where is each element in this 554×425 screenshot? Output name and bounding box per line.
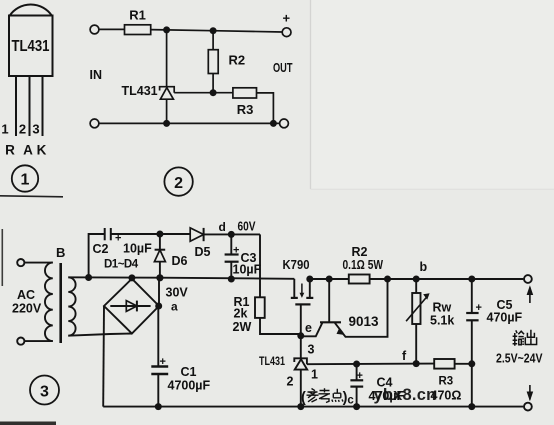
wire secondary top to bridge xyxy=(68,276,160,278)
terminal input bottom xyxy=(90,119,99,128)
wire bridge right corner riser xyxy=(158,278,160,306)
svg-text:Rw: Rw xyxy=(433,301,452,315)
svg-text:+: + xyxy=(160,356,166,368)
capacitor C2 plates xyxy=(104,228,106,240)
junction emitter riser node b xyxy=(384,276,391,283)
mosfet K790 channel bar xyxy=(295,303,310,305)
scan artifact bottom-left bar xyxy=(0,422,56,425)
junction C1 ground xyxy=(155,403,162,410)
junction bottom output xyxy=(270,120,277,127)
svg-text:C2: C2 xyxy=(93,242,109,256)
svg-text:1: 1 xyxy=(1,122,8,137)
mosfet K790 source bar xyxy=(306,297,313,299)
svg-text:5.1k: 5.1k xyxy=(430,314,454,328)
figure number 1 circle xyxy=(12,165,38,191)
fake glyph kao 考 xyxy=(319,388,331,402)
potentiometer Rw body xyxy=(412,293,420,324)
junction secondary top / C2 xyxy=(85,274,92,281)
wire AC top to primary xyxy=(24,262,52,264)
wire emitter to node b xyxy=(343,279,388,337)
fake glyph can 参 xyxy=(307,388,344,402)
package dome xyxy=(10,5,52,16)
svg-text:D1~D4: D1~D4 xyxy=(104,259,139,271)
wire C1 to ground rail xyxy=(157,374,159,407)
svg-text:R: R xyxy=(5,143,15,158)
mosfet K790 drain lead xyxy=(293,279,295,298)
TL431 triangle xyxy=(160,88,173,100)
capacitor C3 plates xyxy=(225,253,239,255)
svg-text:R2: R2 xyxy=(229,53,246,68)
separator line under figure 1 xyxy=(0,196,63,197)
junction K790 source xyxy=(306,276,313,283)
svg-text:3: 3 xyxy=(308,343,315,357)
shunt regulator TL431 cathode lead xyxy=(166,30,168,87)
svg-text:470µF: 470µF xyxy=(487,311,523,325)
wire R3 to output low xyxy=(257,93,274,123)
shunt regulator TL431 cathode lead xyxy=(300,336,302,359)
wire bridge left corner drop xyxy=(102,306,105,407)
svg-text:1: 1 xyxy=(311,368,318,382)
wire source to R2 xyxy=(310,278,349,280)
svg-text:2: 2 xyxy=(19,122,26,137)
bridge inner diode xyxy=(110,305,150,307)
junction C4 ground xyxy=(353,403,360,410)
capacitor C4 upper lead xyxy=(356,364,358,380)
svg-text:+: + xyxy=(283,11,291,26)
junction TL431 anode ground xyxy=(297,403,304,410)
terminal output bottom xyxy=(280,119,289,128)
wire R1 bottom to gate node xyxy=(260,318,301,334)
figure number 3 circle xyxy=(30,376,59,405)
svg-text:IN: IN xyxy=(90,68,103,82)
background lighter top-right quadrant xyxy=(311,0,554,190)
pin lead 1 xyxy=(15,76,17,136)
junction D6 top xyxy=(156,231,163,238)
wire node a down to C1 xyxy=(157,306,159,366)
terminal AC top xyxy=(17,259,24,266)
capacitor C3 upper lead xyxy=(230,234,232,254)
junction gate node e xyxy=(297,332,304,339)
mosfet K790 drain bar xyxy=(291,297,298,299)
wire R2 to node b rail xyxy=(370,278,524,280)
terminal output plus xyxy=(524,275,532,283)
svg-text:+: + xyxy=(233,245,239,257)
svg-text:2: 2 xyxy=(287,375,294,389)
svg-text:R1: R1 xyxy=(129,8,146,23)
svg-text:A: A xyxy=(23,143,33,158)
junction C3 bottom xyxy=(228,276,235,283)
wire C2 branch riser xyxy=(89,234,105,278)
svg-text:d: d xyxy=(219,220,226,234)
pin lead 3 xyxy=(42,76,44,136)
svg-text:R3: R3 xyxy=(439,376,454,388)
svg-text:TL431: TL431 xyxy=(259,356,285,368)
terminal AC bottom xyxy=(17,338,24,345)
svg-text:1: 1 xyxy=(21,172,30,189)
capacitor C1 plates xyxy=(151,365,168,367)
junction bottom anode xyxy=(163,120,170,127)
TL431 cathode bar with wings xyxy=(294,358,307,364)
resistor R3 (470ohm) xyxy=(434,359,454,369)
junction 9013 base xyxy=(326,276,333,283)
fake glyph chu 出 xyxy=(525,330,536,345)
junction Rw top xyxy=(413,276,420,283)
terminal output plus xyxy=(282,28,291,37)
junction R3 right xyxy=(468,360,475,367)
svg-text:(: ( xyxy=(301,390,306,406)
output range arrow down xyxy=(529,385,531,400)
wire ground rail xyxy=(103,406,523,408)
svg-text:2.5V~24V: 2.5V~24V xyxy=(496,351,543,366)
figure number 2 circle xyxy=(164,167,192,195)
capacitor C4 lower lead xyxy=(356,387,358,407)
svg-text:TL431: TL431 xyxy=(12,38,50,55)
diode D6 anode lead xyxy=(159,262,161,278)
wire 30V rail to K790 drain xyxy=(160,278,294,279)
svg-text:+: + xyxy=(357,370,363,382)
junction top R2 xyxy=(210,27,217,34)
wire R2 bottom lead xyxy=(212,74,214,93)
wire R2 top lead xyxy=(212,31,214,50)
scan border line vertical xyxy=(310,0,312,189)
junction top cathode xyxy=(163,26,170,33)
wire reference line to R3 xyxy=(174,92,233,94)
svg-text:TL431: TL431 xyxy=(122,84,158,98)
terminal input top xyxy=(90,25,99,34)
TL431 anode lead xyxy=(300,370,302,407)
svg-text:2W: 2W xyxy=(233,320,252,334)
mosfet K790 gate lead xyxy=(300,304,302,336)
junction bridge right corner node a xyxy=(155,303,162,310)
fake glyph dian 点 xyxy=(332,389,343,402)
svg-text:10µF: 10µF xyxy=(233,263,262,277)
capacitor C5 lower lead xyxy=(471,320,473,406)
TL431 cathode bar with wings xyxy=(160,87,175,93)
output range arrow up xyxy=(529,288,531,304)
svg-text:4700µF: 4700µF xyxy=(168,379,211,393)
svg-text:R2: R2 xyxy=(352,245,368,259)
junction D6 anode / 30V rail xyxy=(156,274,163,281)
bridge rectifier D1-D4 diamond xyxy=(104,279,159,334)
svg-text:3: 3 xyxy=(32,122,39,137)
transformer T primary winding xyxy=(45,263,53,342)
junction C5 ground xyxy=(468,403,475,410)
potentiometer Rw upper lead xyxy=(415,279,417,293)
scan border line horizontal xyxy=(311,188,554,190)
transistor 9013 collector xyxy=(301,323,323,337)
svg-text:220V: 220V xyxy=(12,302,42,316)
svg-text:b: b xyxy=(420,260,428,274)
diode D6 cathode lead xyxy=(159,234,161,250)
transformer secondary winding xyxy=(68,277,75,335)
junction bridge top corner xyxy=(128,274,135,281)
junction ref R2 xyxy=(210,89,217,96)
diode D6 xyxy=(155,249,166,251)
transistor 9013 emitter xyxy=(335,323,343,333)
svg-text:e: e xyxy=(305,321,312,335)
mosfet K790 source lead xyxy=(309,279,311,298)
svg-text:AC: AC xyxy=(17,288,35,302)
svg-text:+: + xyxy=(115,233,121,245)
svg-text:D5: D5 xyxy=(195,245,211,259)
wire top rail xyxy=(99,28,125,30)
wire R3 to C5 column xyxy=(455,363,472,365)
svg-text:OUT: OUT xyxy=(273,61,293,75)
wire secondary bottom to bridge xyxy=(68,334,132,336)
svg-text:2: 2 xyxy=(174,175,183,192)
svg-text:9013: 9013 xyxy=(349,314,380,329)
resistor R2 (0.1ohm 5W) xyxy=(349,275,370,284)
potentiometer Rw lower lead xyxy=(415,324,417,364)
svg-text:K: K xyxy=(37,143,47,158)
scan artifact left edge xyxy=(1,229,3,286)
svg-text:c: c xyxy=(347,395,354,407)
TL431 triangle xyxy=(295,359,308,369)
terminal output minus xyxy=(524,403,532,411)
wire reference line xyxy=(307,363,434,366)
pin lead 2 xyxy=(29,76,31,136)
wire AC bottom to primary xyxy=(24,340,52,342)
transistor package TL431 body xyxy=(9,16,53,77)
svg-text:f: f xyxy=(402,349,407,363)
resistor R2 xyxy=(208,50,218,74)
svg-text:K790: K790 xyxy=(283,257,310,272)
svg-text:ybx8.cn: ybx8.cn xyxy=(374,386,437,404)
svg-text:2k: 2k xyxy=(234,307,248,321)
svg-text:60V: 60V xyxy=(238,220,257,234)
mosfet K790 body lead and arrow xyxy=(301,284,303,294)
resistor R3 xyxy=(233,88,257,98)
wire top rail to + terminal xyxy=(151,30,283,32)
junction C4 top xyxy=(353,361,360,368)
junction C5 top xyxy=(468,276,475,283)
capacitor C3 lower lead xyxy=(230,262,232,279)
junction node f xyxy=(413,360,420,367)
wire top pump rail xyxy=(111,233,190,235)
diode D5 xyxy=(190,228,203,241)
transformer core xyxy=(59,263,62,343)
wire D5 to node d xyxy=(204,233,260,235)
capacitor C5 plates xyxy=(466,312,478,314)
potentiometer Rw wiper arrow xyxy=(406,297,427,322)
svg-text:a: a xyxy=(171,300,178,314)
svg-text:B: B xyxy=(56,245,65,260)
svg-text:0.1Ω 5W: 0.1Ω 5W xyxy=(343,258,384,272)
svg-text:+: + xyxy=(476,302,482,314)
transistor Q 9013 base lead xyxy=(328,279,330,322)
fake glyph shu 输 output label xyxy=(513,330,537,346)
junction node d xyxy=(228,231,235,238)
wire node d to R1 xyxy=(259,234,261,297)
resistor R1 xyxy=(125,25,151,35)
transistor 9013 base bar xyxy=(320,321,341,323)
wire bottom rail xyxy=(99,122,280,124)
svg-text:3: 3 xyxy=(40,384,49,401)
resistor R1 (2k 2W) xyxy=(255,297,265,318)
capacitor C5 upper lead xyxy=(471,279,473,313)
TL431 anode lead xyxy=(166,99,168,123)
svg-text:R3: R3 xyxy=(237,102,254,117)
capacitor C4 plates xyxy=(350,379,363,381)
svg-text:D6: D6 xyxy=(172,254,188,268)
svg-text:10µF: 10µF xyxy=(123,242,152,256)
svg-text:C1: C1 xyxy=(181,365,197,379)
svg-text:30V: 30V xyxy=(166,286,189,300)
